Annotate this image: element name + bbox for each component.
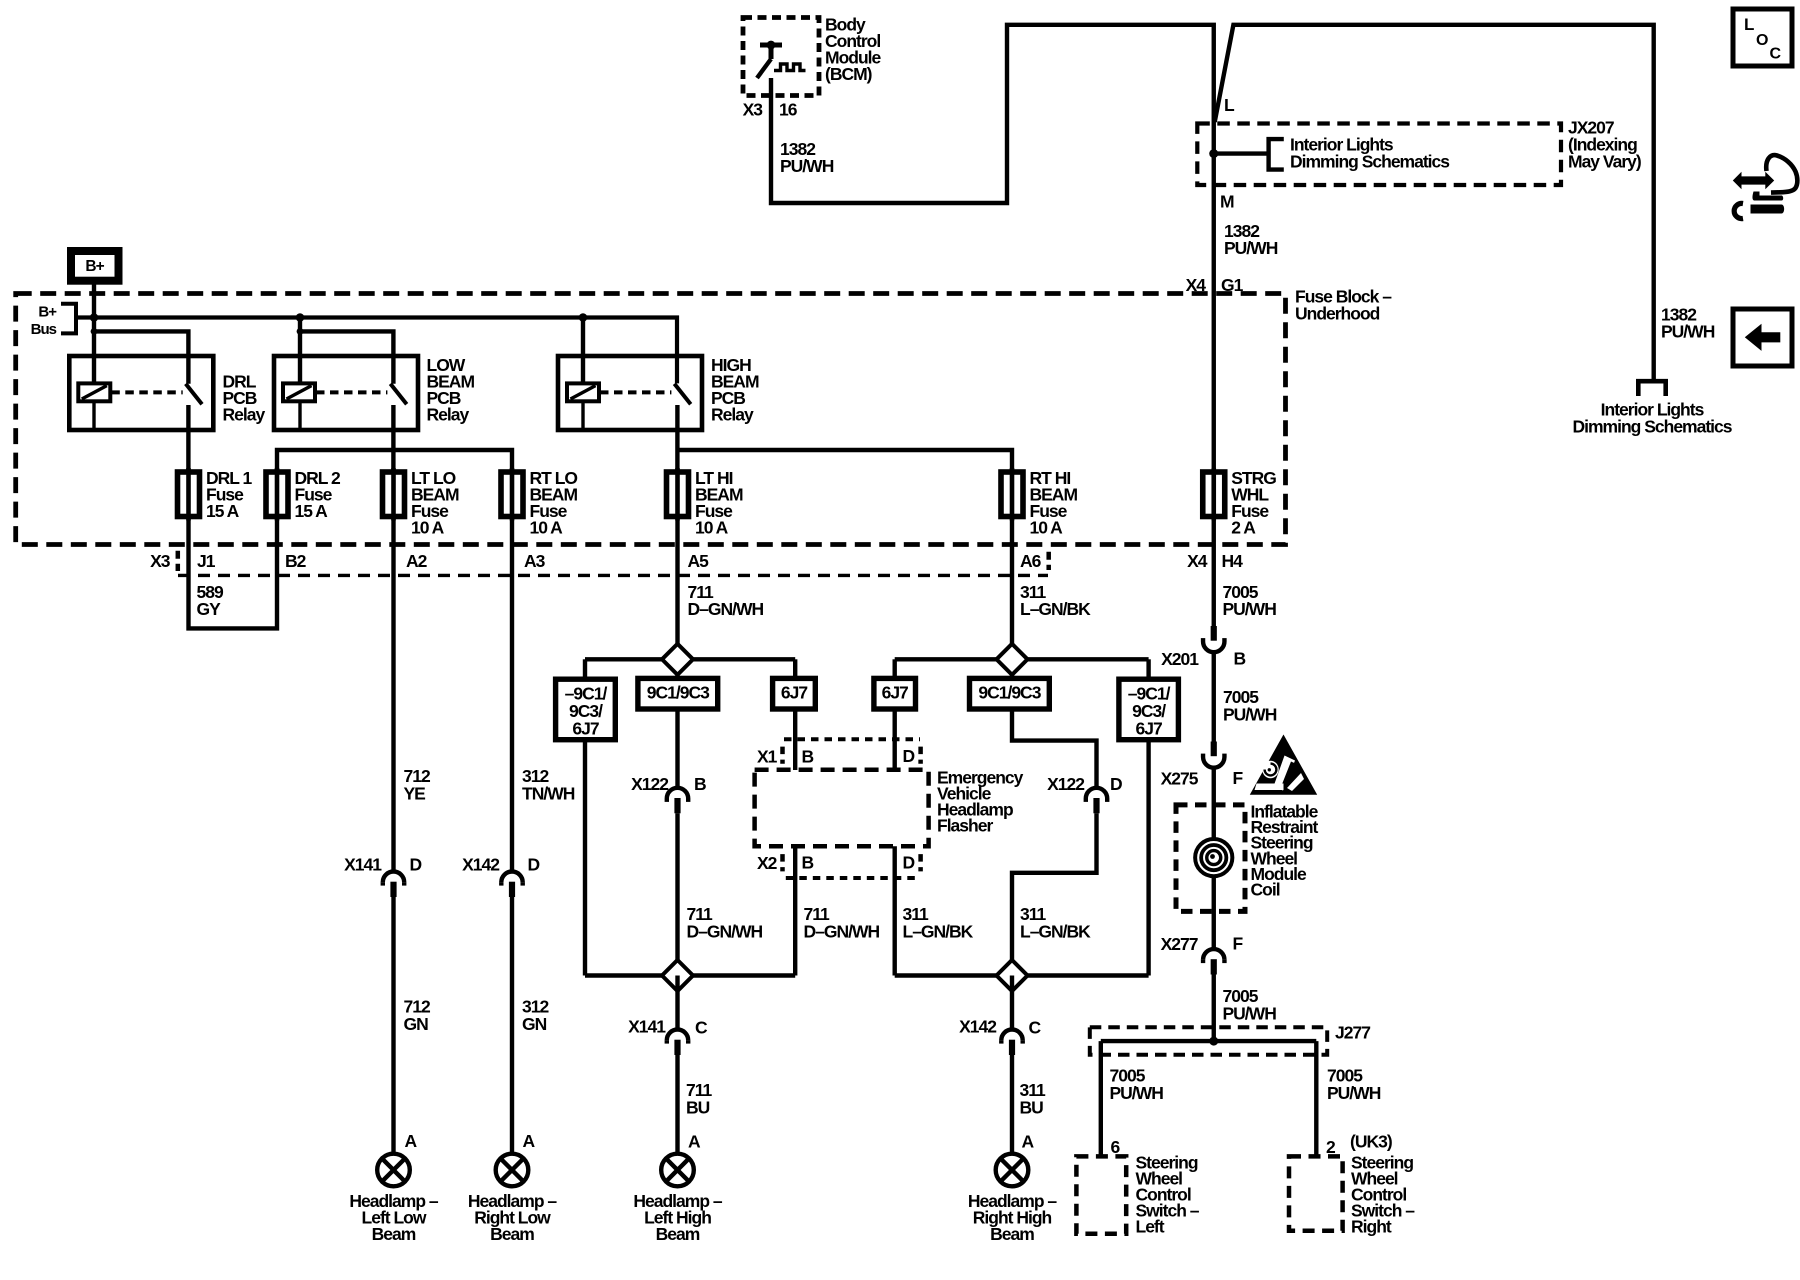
junction dot JX207 xyxy=(1209,149,1218,158)
svg-text:D: D xyxy=(410,855,422,875)
relay HIGH BEAM PCB coil xyxy=(567,383,599,401)
svg-text:6J7: 6J7 xyxy=(1135,719,1161,739)
splice designator box -9C1/9C3/6J7 right xyxy=(1119,679,1179,740)
relay DRL PCB dashed actuator link xyxy=(111,390,182,394)
B+ bus bracket xyxy=(61,304,76,334)
fuse LT HI BEAM 10A xyxy=(667,472,689,517)
svg-text:(UK3): (UK3) xyxy=(1350,1132,1392,1152)
svg-text:L: L xyxy=(1744,15,1754,34)
svg-text:Beam: Beam xyxy=(990,1224,1034,1244)
svg-text:Relay: Relay xyxy=(223,405,266,425)
svg-text:TN/WH: TN/WH xyxy=(522,784,575,804)
wire 7005 PU/WH to right switch xyxy=(1314,1041,1318,1156)
wire HIGH BEAM relay output to LT HI fuse xyxy=(675,405,679,472)
wire 712 from LT LO fuse xyxy=(391,517,395,872)
svg-text:B2: B2 xyxy=(285,551,307,571)
wire 1382 PU/WH branch to dimming schematics xyxy=(1215,25,1654,381)
svg-text:10 A: 10 A xyxy=(530,518,564,538)
svg-text:Beam: Beam xyxy=(372,1224,416,1244)
wire from -9C1 right box to lower junction xyxy=(1146,740,1150,976)
svg-text:D: D xyxy=(1110,774,1122,794)
svg-text:X122: X122 xyxy=(1047,774,1085,794)
svg-text:PU/WH: PU/WH xyxy=(1327,1083,1381,1103)
fuse RT HI BEAM 10A xyxy=(1001,472,1023,517)
J277 internal bus wire xyxy=(1101,1039,1317,1043)
junction dot LOW BEAM switch feed xyxy=(297,328,304,335)
connector X141 cavity D xyxy=(383,872,404,883)
svg-text:H4: H4 xyxy=(1222,551,1244,571)
svg-text:D: D xyxy=(903,746,915,766)
relay HIGH BEAM PCB switch blade xyxy=(674,384,690,404)
wire from 6J7 left to flasher X1 B xyxy=(793,709,797,770)
wire 711 BU to left high lamp xyxy=(675,1055,679,1154)
svg-text:B: B xyxy=(694,774,706,794)
svg-text:G1: G1 xyxy=(1221,275,1244,295)
wire 7005 PU/WH X277 to J277 xyxy=(1212,975,1216,1042)
relay HIGH BEAM PCB box xyxy=(558,356,702,430)
svg-text:(BCM): (BCM) xyxy=(825,64,872,84)
svg-text:PU/WH: PU/WH xyxy=(1661,322,1715,342)
wire from X122 D back to lower diamond xyxy=(1012,813,1097,975)
svg-text:PU/WH: PU/WH xyxy=(780,156,834,176)
wire DRL relay switch feed xyxy=(94,331,188,383)
wire from -9C1 left box to lower junction xyxy=(583,740,587,976)
svg-text:X201: X201 xyxy=(1161,649,1199,669)
svg-text:A3: A3 xyxy=(524,551,546,571)
wire to splice box -9C1/9C3/6J7 right xyxy=(1146,659,1150,679)
clockspring coil symbol xyxy=(1195,839,1232,876)
svg-text:X4: X4 xyxy=(1187,551,1208,571)
lamp Headlamp Left High Beam xyxy=(661,1154,694,1187)
svg-text:L: L xyxy=(1224,95,1235,115)
svg-text:X1: X1 xyxy=(757,747,778,767)
wire lower distribution right horizontal xyxy=(895,973,1149,977)
svg-text:D–GN/WH: D–GN/WH xyxy=(804,922,880,942)
svg-text:PU/WH: PU/WH xyxy=(1223,1004,1277,1024)
splice designator box 9C1/9C3 left xyxy=(638,678,718,709)
relay HIGH BEAM PCB dashed actuator link xyxy=(600,390,671,394)
connector A6 tick xyxy=(1046,552,1051,570)
svg-text:May Vary): May Vary) xyxy=(1568,152,1641,172)
wire high beam distribution to RT HI fuse xyxy=(677,450,1012,472)
splice designator box 6J7 right xyxy=(874,678,916,709)
splice designator box 6J7 left xyxy=(773,678,816,709)
svg-text:9C1/9C3: 9C1/9C3 xyxy=(647,683,710,703)
wire DRL relay coil return xyxy=(92,401,95,430)
wire LOW BEAM relay coil return xyxy=(298,401,301,430)
svg-text:Dimming Schematics: Dimming Schematics xyxy=(1290,152,1450,172)
junction dot DRL coil feed xyxy=(90,313,99,322)
svg-text:X275: X275 xyxy=(1161,769,1199,789)
svg-text:9C1/9C3: 9C1/9C3 xyxy=(978,683,1041,703)
junction dot DRL switch feed xyxy=(91,328,98,335)
wire 7005 PU/WH to left switch xyxy=(1099,1041,1103,1156)
wire from 6J7 right to flasher X1 D xyxy=(893,709,897,770)
svg-text:X141: X141 xyxy=(344,855,382,875)
svg-text:PU/WH: PU/WH xyxy=(1224,238,1278,258)
B+ feed wire xyxy=(92,284,96,319)
svg-text:A: A xyxy=(688,1132,701,1152)
SIR caution triangle xyxy=(1252,737,1316,794)
svg-text:Right: Right xyxy=(1351,1217,1392,1237)
BCM driver switch symbol xyxy=(760,43,782,48)
svg-text:C: C xyxy=(1029,1018,1042,1038)
wire DRL relay output to DRL1 fuse xyxy=(186,405,190,472)
svg-text:15 A: 15 A xyxy=(295,501,329,521)
svg-text:6: 6 xyxy=(1111,1137,1121,1157)
svg-text:A2: A2 xyxy=(406,551,428,571)
svg-text:2: 2 xyxy=(1326,1137,1336,1157)
connector X122 cavity D xyxy=(1086,788,1107,799)
wire through clockspring coil module xyxy=(1212,768,1216,949)
junction dot LOW BEAM coil feed xyxy=(296,313,305,322)
relay DRL PCB box xyxy=(69,356,213,430)
fuse block underhood dashed box xyxy=(16,294,1286,545)
svg-text:6J7: 6J7 xyxy=(572,719,598,739)
svg-text:6J7: 6J7 xyxy=(781,683,807,703)
svg-text:X142: X142 xyxy=(959,1017,997,1037)
connector row X3 dashed line xyxy=(178,574,1048,577)
wire to splice box 6J7 left xyxy=(793,659,797,678)
svg-text:10 A: 10 A xyxy=(1030,518,1064,538)
svg-text:GN: GN xyxy=(522,1014,547,1034)
splice designator box -9C1/9C3/6J7 left xyxy=(556,679,616,740)
svg-text:PU/WH: PU/WH xyxy=(1110,1083,1164,1103)
svg-text:F: F xyxy=(1233,934,1244,954)
svg-text:2 A: 2 A xyxy=(1231,518,1256,538)
svg-text:L–GN/BK: L–GN/BK xyxy=(903,922,974,942)
wire LOW BEAM relay switch feed xyxy=(300,331,393,383)
wire LOW BEAM relay coil feed xyxy=(298,318,302,384)
svg-text:A: A xyxy=(523,1131,536,1151)
svg-text:A: A xyxy=(405,1131,418,1151)
steering wheel control switch right dashed box xyxy=(1289,1156,1343,1230)
B+ terminal box xyxy=(71,251,119,281)
svg-text:A5: A5 xyxy=(688,551,710,571)
relay DRL PCB switch blade xyxy=(186,384,202,404)
connector X142 cavity D xyxy=(501,872,522,883)
wire left distribution upper horizontal xyxy=(585,657,795,661)
svg-text:Bus: Bus xyxy=(31,321,57,338)
relay LOW BEAM PCB box xyxy=(274,356,418,430)
wire DRL relay coil feed xyxy=(92,318,96,384)
fuse STRG WHL 2A xyxy=(1203,472,1225,517)
splice designator box 9C1/9C3 right xyxy=(970,678,1050,709)
junction diamond LT HI headlamp xyxy=(662,960,693,991)
svg-text:C: C xyxy=(695,1018,708,1038)
relay LOW BEAM PCB coil xyxy=(283,383,315,401)
wire 1382 PU/WH from BCM to fuse block xyxy=(771,25,1214,626)
connector X122 cavity B xyxy=(667,788,688,799)
svg-text:M: M xyxy=(1220,192,1234,212)
wire 312 GN to right low lamp xyxy=(510,897,514,1154)
fuse DRL 2 15A xyxy=(266,472,288,517)
svg-text:F: F xyxy=(1233,768,1244,788)
page locator box LOC xyxy=(1733,9,1792,66)
svg-text:D–GN/WH: D–GN/WH xyxy=(688,599,764,619)
connector X142 cavity C xyxy=(1001,1030,1022,1041)
wire from lower diamond to X142 C xyxy=(1010,976,1014,1030)
svg-text:Relay: Relay xyxy=(427,405,470,425)
wire 7005 PU/WH X201 to X275 xyxy=(1212,652,1216,741)
svg-text:X3: X3 xyxy=(743,100,764,120)
svg-text:X141: X141 xyxy=(628,1017,666,1037)
svg-text:GY: GY xyxy=(197,599,222,619)
relay LOW BEAM PCB dashed actuator link xyxy=(316,390,387,394)
svg-text:X3: X3 xyxy=(150,551,171,571)
svg-text:BU: BU xyxy=(1020,1098,1044,1118)
wire from 9C1/9C3 left to X122 B xyxy=(675,709,679,788)
wire from flasher X2 B to lower junction xyxy=(793,846,797,975)
junction diamond LT HI feed xyxy=(662,644,693,675)
wire 712 GN to left low lamp xyxy=(391,897,395,1154)
B+ bus wire xyxy=(76,318,678,384)
inflatable restraint steering wheel module coil dashed box xyxy=(1176,805,1245,912)
svg-text:D: D xyxy=(903,853,915,873)
svg-text:Coil: Coil xyxy=(1251,880,1280,900)
wire 711 D-GN/WH from X122 B to lower diamond xyxy=(675,813,679,975)
svg-text:X142: X142 xyxy=(462,855,500,875)
connector X201 cavity B xyxy=(1211,626,1217,641)
svg-text:J277: J277 xyxy=(1335,1023,1370,1043)
svg-text:Dimming Schematics: Dimming Schematics xyxy=(1573,417,1733,437)
JX207 interior lights dimming dashed box xyxy=(1197,124,1561,186)
svg-text:Flasher: Flasher xyxy=(937,816,993,836)
wire 312 from RT LO fuse xyxy=(510,517,514,872)
svg-text:O: O xyxy=(1756,32,1768,49)
wire HIGH BEAM relay coil feed xyxy=(581,318,585,384)
svg-text:A: A xyxy=(1022,1132,1035,1152)
svg-text:15 A: 15 A xyxy=(206,501,240,521)
wire low beam distribution to DRL2 and RT LO fuses xyxy=(277,450,512,472)
svg-text:B+: B+ xyxy=(38,304,57,321)
svg-text:B+: B+ xyxy=(85,258,104,275)
svg-text:PU/WH: PU/WH xyxy=(1223,705,1277,725)
fuse DRL 1 15A xyxy=(178,472,200,517)
svg-text:Relay: Relay xyxy=(711,405,754,425)
connector X275 cavity F xyxy=(1211,742,1217,757)
svg-text:X277: X277 xyxy=(1161,934,1198,954)
wire to splice box 6J7 right xyxy=(893,659,897,678)
svg-text:6J7: 6J7 xyxy=(882,683,908,703)
connector X141 cavity C xyxy=(667,1030,688,1041)
lamp Headlamp Right Low Beam xyxy=(496,1154,529,1187)
BCM dashed box xyxy=(743,18,819,96)
wire 589 GY loop J1 to B2 xyxy=(189,517,278,629)
relay LOW BEAM PCB switch blade xyxy=(390,384,406,404)
relay DRL PCB coil xyxy=(78,383,110,401)
svg-text:Left: Left xyxy=(1136,1217,1165,1237)
svg-text:Underhood: Underhood xyxy=(1295,304,1380,324)
svg-text:L–GN/BK: L–GN/BK xyxy=(1020,922,1091,942)
lamp Headlamp Left Low Beam xyxy=(377,1154,410,1187)
connector X277 cavity F xyxy=(1203,949,1224,960)
svg-text:YE: YE xyxy=(404,784,426,804)
svg-text:PU/WH: PU/WH xyxy=(1223,599,1277,619)
fuse RT LO BEAM 10A xyxy=(501,472,523,517)
svg-text:GN: GN xyxy=(404,1014,429,1034)
svg-text:B: B xyxy=(802,747,814,767)
junction dot J277 xyxy=(1209,1037,1218,1046)
svg-text:B: B xyxy=(1234,649,1246,669)
wire from flasher X2 D to lower junction xyxy=(893,846,897,975)
svg-text:10 A: 10 A xyxy=(695,518,729,538)
wire LOW BEAM relay output to LT LO fuse xyxy=(391,405,395,472)
wire 311 BU to right high lamp xyxy=(1010,1055,1014,1154)
wire to splice box -9C1/9C3/6J7 left xyxy=(583,659,587,679)
emergency vehicle headlamp flasher box xyxy=(784,737,920,741)
junction diamond RT HI feed xyxy=(997,644,1028,675)
wire HIGH BEAM relay coil return xyxy=(581,401,584,430)
see-other-section icon xyxy=(1733,172,1774,189)
svg-text:X2: X2 xyxy=(757,853,778,873)
svg-text:B: B xyxy=(802,853,814,873)
wire 311 from RT HI fuse to diamond xyxy=(1010,517,1014,680)
svg-text:10 A: 10 A xyxy=(411,518,445,538)
off-page connector to interior lights dimming xyxy=(1636,381,1668,396)
wire from BCM junction to interior lights bracket xyxy=(1214,151,1269,155)
svg-text:X122: X122 xyxy=(631,774,669,794)
wire from lower diamond to X141 C xyxy=(675,976,679,1030)
junction dot HIGH BEAM coil feed xyxy=(579,313,588,322)
wire right distribution upper horizontal xyxy=(895,657,1149,661)
svg-text:BU: BU xyxy=(686,1098,710,1118)
lamp Headlamp Right High Beam xyxy=(996,1154,1029,1187)
left arrow reference box xyxy=(1733,309,1792,366)
svg-text:X4: X4 xyxy=(1186,275,1207,295)
wire from 9C1/9C3 right to X122 D jog xyxy=(1012,709,1097,788)
svg-text:Beam: Beam xyxy=(490,1224,534,1244)
svg-text:A6: A6 xyxy=(1020,551,1042,571)
svg-text:D–GN/WH: D–GN/WH xyxy=(687,922,763,942)
svg-text:Beam: Beam xyxy=(656,1224,700,1244)
wire 711 from LT HI fuse to diamond xyxy=(675,517,679,680)
connector X3 tick xyxy=(176,551,181,571)
splice pack J277 dashed box xyxy=(1090,1027,1327,1054)
svg-text:C: C xyxy=(1770,46,1782,63)
svg-text:D: D xyxy=(528,855,540,875)
wire lower distribution left horizontal xyxy=(585,973,795,977)
steering wheel control switch left dashed box xyxy=(1076,1156,1126,1233)
svg-text:L–GN/BK: L–GN/BK xyxy=(1020,599,1091,619)
interior lights dimming bracket xyxy=(1269,139,1284,170)
svg-text:J1: J1 xyxy=(197,551,216,571)
fuse LT LO BEAM 10A xyxy=(383,472,405,517)
junction diamond RT HI headlamp xyxy=(997,960,1028,991)
svg-text:16: 16 xyxy=(779,100,798,120)
